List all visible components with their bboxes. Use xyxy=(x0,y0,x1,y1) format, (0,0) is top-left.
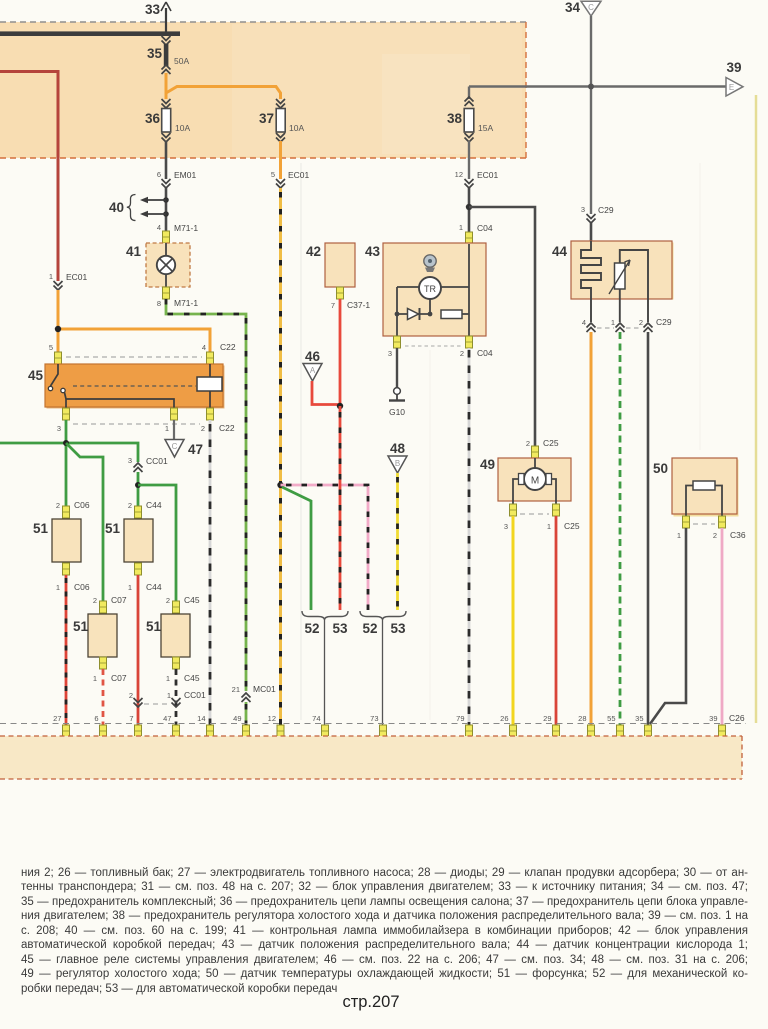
svg-text:52: 52 xyxy=(304,621,319,636)
wire red injector2 via CC01 pin2 to ECU pin 7 xyxy=(129,575,170,725)
svg-text:2: 2 xyxy=(128,501,132,510)
connector C04 pin 1 xyxy=(459,223,493,244)
svg-text:45: 45 xyxy=(28,368,44,383)
svg-text:4: 4 xyxy=(202,343,206,352)
svg-text:1: 1 xyxy=(547,522,551,531)
svg-text:C07: C07 xyxy=(111,673,127,683)
svg-text:1: 1 xyxy=(165,424,169,433)
svg-text:39: 39 xyxy=(709,714,717,723)
wire EC01 yellow-black from fuse 37 to ECU pin 12 xyxy=(271,141,310,725)
svg-text:51: 51 xyxy=(105,521,121,536)
svg-text:C45: C45 xyxy=(184,673,200,683)
svg-text:M71-1: M71-1 xyxy=(174,223,198,233)
svg-text:35: 35 xyxy=(147,46,163,61)
svg-text:12: 12 xyxy=(268,714,276,723)
ECU pin 27 xyxy=(53,714,69,737)
svg-text:EC01: EC01 xyxy=(288,170,310,180)
svg-text:C25: C25 xyxy=(564,521,580,531)
svg-text:3: 3 xyxy=(128,456,132,465)
wire EM01 from fuse 36 xyxy=(157,141,197,231)
wire green dashed from 44 pin1 to ECU pin 55 xyxy=(619,332,622,725)
wire yellow-black stub from 48 xyxy=(396,473,399,610)
svg-text:C06: C06 xyxy=(74,500,90,510)
svg-text:C: C xyxy=(172,442,178,451)
svg-text:1: 1 xyxy=(128,583,132,592)
svg-text:10A: 10A xyxy=(175,123,190,133)
svg-text:79: 79 xyxy=(456,714,464,723)
bus bar xyxy=(0,31,180,36)
wire red 49 to ECU pin 29 xyxy=(555,516,558,725)
svg-text:2: 2 xyxy=(93,596,97,605)
wire EC01 red from page edge xyxy=(0,72,88,291)
injector 51 no2 xyxy=(105,500,162,592)
svg-text:21: 21 xyxy=(232,685,240,694)
wire orange to main relay 45 xyxy=(55,290,210,352)
svg-text:35: 35 xyxy=(635,714,643,723)
wire green-black from 41 to MC01 and ECU pin 49 xyxy=(166,299,276,725)
svg-text:C: C xyxy=(588,3,594,12)
node 40 branch arrows xyxy=(109,195,169,221)
svg-text:G10: G10 xyxy=(389,407,405,417)
node 47 connector C xyxy=(165,420,203,457)
svg-text:1: 1 xyxy=(611,318,615,327)
node 39 connector E xyxy=(726,60,743,96)
svg-text:1: 1 xyxy=(459,223,463,232)
svg-text:10A: 10A xyxy=(289,123,304,133)
lamp unit 41 immobilizer warning lamp xyxy=(126,243,190,287)
svg-text:52: 52 xyxy=(362,621,377,636)
svg-text:4: 4 xyxy=(582,318,586,327)
ECU pin 49 xyxy=(233,714,249,737)
ECU pin 26 xyxy=(500,714,516,737)
brace 52 53 pair right xyxy=(360,611,406,725)
svg-text:CC01: CC01 xyxy=(184,690,206,700)
svg-text:A: A xyxy=(310,366,316,375)
svg-text:5: 5 xyxy=(271,170,275,179)
svg-text:7: 7 xyxy=(331,301,335,310)
wire black-white injector4 via CC01 pin1 to ECU pin 47 xyxy=(167,669,206,725)
svg-text:2: 2 xyxy=(526,439,530,448)
ECU pin 79 xyxy=(456,714,472,737)
ECU connector row line xyxy=(0,723,746,725)
svg-text:C29: C29 xyxy=(656,317,672,327)
svg-text:74: 74 xyxy=(312,714,320,723)
connectors C36 pins 1 2 xyxy=(677,516,746,540)
svg-text:C22: C22 xyxy=(219,423,235,433)
wire EC01 gray from fuse 38 xyxy=(455,141,499,232)
fuse 35 50A complex fuse xyxy=(147,36,189,74)
wire gray to fuse 38 xyxy=(468,87,470,100)
wire orange from 44 pin4 to ECU pin 28 xyxy=(590,332,593,725)
svg-text:1: 1 xyxy=(166,674,170,683)
svg-text:E: E xyxy=(729,83,734,92)
svg-text:29: 29 xyxy=(543,714,551,723)
svg-text:C44: C44 xyxy=(146,582,162,592)
svg-text:2: 2 xyxy=(713,531,717,540)
svg-text:12: 12 xyxy=(455,170,463,179)
svg-text:5: 5 xyxy=(49,343,53,352)
wire white-black from relay pin 2 to ECU pin 14 xyxy=(209,420,212,725)
svg-text:28: 28 xyxy=(578,714,586,723)
ECU pin 12 xyxy=(268,714,284,737)
svg-text:53: 53 xyxy=(332,621,348,636)
connector M71-1 pin 8 xyxy=(157,287,199,308)
faint page bleed line xyxy=(755,95,758,723)
svg-text:41: 41 xyxy=(126,244,142,259)
svg-text:6: 6 xyxy=(157,170,161,179)
svg-text:43: 43 xyxy=(365,244,381,259)
connector M71-1 pin 4 xyxy=(157,223,199,243)
svg-text:3: 3 xyxy=(388,349,392,358)
injector 51 no1 xyxy=(33,500,90,592)
svg-text:51: 51 xyxy=(146,619,162,634)
coolant temp sensor 50 xyxy=(653,458,739,517)
svg-text:1: 1 xyxy=(93,674,97,683)
brace 52 53 manual-auto pair left xyxy=(302,611,348,725)
svg-text:51: 51 xyxy=(33,521,49,536)
wire red from 46 xyxy=(312,381,343,409)
wire pink 50 pin2 to ECU pin 39 xyxy=(721,528,724,725)
ground G10 xyxy=(389,348,405,417)
svg-text:2: 2 xyxy=(166,596,170,605)
ECU pin 73 xyxy=(370,714,386,737)
svg-text:CC01: CC01 xyxy=(146,456,168,466)
svg-text:C45: C45 xyxy=(184,595,200,605)
fuse box block 30-32 area xyxy=(0,22,526,158)
injector 51 no3 xyxy=(73,595,127,683)
svg-text:15A: 15A xyxy=(478,123,493,133)
svg-text:50: 50 xyxy=(653,461,668,476)
wire green injector feed net CC01 xyxy=(0,420,176,601)
ECU pin 47 xyxy=(163,714,179,737)
svg-text:C04: C04 xyxy=(477,348,493,358)
main relay 45 engine management xyxy=(28,364,225,409)
svg-text:2: 2 xyxy=(56,501,60,510)
svg-text:48: 48 xyxy=(390,441,406,456)
svg-text:14: 14 xyxy=(197,714,205,723)
svg-text:34: 34 xyxy=(565,0,581,15)
svg-text:M71-1: M71-1 xyxy=(174,298,198,308)
connectors C25 pins 3 1 xyxy=(504,504,580,531)
injector 51 no4 xyxy=(146,595,200,683)
main relay 45 connectors C22 pins 5 4 xyxy=(49,342,236,364)
svg-text:4: 4 xyxy=(157,223,161,232)
idle air control 49 xyxy=(480,438,571,504)
svg-text:3: 3 xyxy=(504,522,508,531)
svg-text:37: 37 xyxy=(259,111,274,126)
wire red-white injector3 to ECU pin 6 xyxy=(102,669,105,725)
svg-text:8: 8 xyxy=(157,299,161,308)
fuse 37 10A xyxy=(259,99,304,142)
wire black-white from 43 pin2 to ECU pin 79 xyxy=(468,348,471,725)
svg-text:53: 53 xyxy=(390,621,406,636)
connector C29 pins 4 1 2 xyxy=(582,299,672,332)
svg-text:2: 2 xyxy=(201,424,205,433)
svg-text:55: 55 xyxy=(607,714,615,723)
fuse 38 15A xyxy=(447,97,493,142)
ECU pin 35 xyxy=(635,714,651,737)
svg-text:C37-1: C37-1 xyxy=(347,300,370,310)
wire gray 50 pin1 joining ECU pin 35 xyxy=(650,528,686,724)
node 48 connector B xyxy=(388,441,407,473)
svg-text:6: 6 xyxy=(94,714,98,723)
svg-text:26: 26 xyxy=(500,714,508,723)
ECU pin 14 xyxy=(197,714,213,737)
ECU pin 7 xyxy=(129,714,141,737)
svg-text:3: 3 xyxy=(57,424,61,433)
svg-text:MC01: MC01 xyxy=(253,684,276,694)
wire orange from fuse35 to fuses 36 37 xyxy=(166,73,281,99)
svg-text:47: 47 xyxy=(163,714,171,723)
svg-text:C36: C36 xyxy=(730,530,746,540)
ECU pin 28 xyxy=(578,714,594,737)
svg-text:33: 33 xyxy=(145,2,161,17)
svg-text:73: 73 xyxy=(370,714,378,723)
wire pink-black branch to autobox stub xyxy=(281,485,369,610)
control unit 42 autobox xyxy=(306,243,370,310)
svg-text:47: 47 xyxy=(188,442,203,457)
svg-text:C26: C26 xyxy=(729,713,745,723)
svg-text:EC01: EC01 xyxy=(66,272,88,282)
svg-text:46: 46 xyxy=(305,349,321,364)
svg-text:1: 1 xyxy=(677,531,681,540)
ECU pin 39 xyxy=(709,714,725,737)
svg-text:1: 1 xyxy=(167,691,171,700)
svg-text:27: 27 xyxy=(53,714,61,723)
camshaft sensor 43 xyxy=(365,243,486,336)
svg-text:M: M xyxy=(531,476,539,487)
svg-text:C25: C25 xyxy=(543,438,559,448)
wire yellow 49 to ECU pin 26 xyxy=(512,516,515,725)
oxygen sensor 44 xyxy=(552,241,674,300)
svg-text:2: 2 xyxy=(460,349,464,358)
svg-text:C07: C07 xyxy=(111,595,127,605)
node 34 connector C xyxy=(565,0,601,16)
svg-text:TR: TR xyxy=(424,284,436,294)
svg-text:C22: C22 xyxy=(220,342,236,352)
ECU pin 29 xyxy=(543,714,559,737)
svg-text:44: 44 xyxy=(552,244,568,259)
ECU pin 6 xyxy=(94,714,106,737)
svg-text:36: 36 xyxy=(145,111,161,126)
svg-text:51: 51 xyxy=(73,619,89,634)
svg-text:C29: C29 xyxy=(598,205,614,215)
svg-text:C06: C06 xyxy=(74,582,90,592)
node 33 to power source xyxy=(145,2,171,33)
wire gray branch to idle air valve 49 xyxy=(469,207,535,446)
wire from 34 down xyxy=(590,16,592,214)
wire red-black stub for autobox xyxy=(339,406,342,610)
svg-text:C04: C04 xyxy=(477,223,493,233)
svg-text:38: 38 xyxy=(447,111,463,126)
wire gray from 44 pin2 to ECU pin 35 xyxy=(647,332,650,725)
svg-text:3: 3 xyxy=(581,205,585,214)
wire green branch to manual box stub xyxy=(282,487,311,610)
svg-text:EC01: EC01 xyxy=(477,170,499,180)
fuse 36 10A xyxy=(145,99,190,142)
engine control unit 32 xyxy=(0,736,742,779)
connectors C04 pins 3 2 xyxy=(388,336,493,358)
svg-text:40: 40 xyxy=(109,200,124,215)
wire horizontal to node 39 xyxy=(469,84,726,90)
svg-text:2: 2 xyxy=(129,691,133,700)
svg-text:1: 1 xyxy=(56,583,60,592)
ECU pin 74 xyxy=(312,714,328,737)
svg-text:50A: 50A xyxy=(174,56,189,66)
wire C29 gray from 34 line to sensor 44 xyxy=(581,205,614,241)
node 46 connector A xyxy=(303,349,322,381)
svg-text:49: 49 xyxy=(480,457,495,472)
svg-text:2: 2 xyxy=(639,318,643,327)
faint bleed vertical xyxy=(301,163,700,720)
svg-text:49: 49 xyxy=(233,714,241,723)
svg-text:7: 7 xyxy=(129,714,133,723)
svg-text:1: 1 xyxy=(49,272,53,281)
svg-text:EM01: EM01 xyxy=(174,170,196,180)
ECU pin 55 xyxy=(607,714,623,737)
svg-text:39: 39 xyxy=(726,60,741,75)
svg-text:B: B xyxy=(395,459,400,468)
main relay 45 connectors C22 pins 3 1 2 xyxy=(57,408,235,433)
wire red-black injector1 to ECU pin 27 xyxy=(65,575,68,725)
svg-text:C44: C44 xyxy=(146,500,162,510)
wire red from 42 xyxy=(339,299,342,406)
svg-text:42: 42 xyxy=(306,244,321,259)
